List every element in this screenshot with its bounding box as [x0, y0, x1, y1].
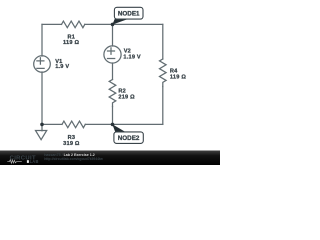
wire bottom-left segment	[42, 123, 62, 125]
wire left vertical upper	[41, 24, 43, 56]
wire left vertical lower	[41, 72, 43, 124]
wire right vertical lower	[162, 87, 164, 125]
node junction dot left	[40, 123, 44, 127]
wire bottom-right segment	[85, 123, 163, 125]
resistor R3 labels	[63, 135, 80, 147]
resistor R3	[62, 121, 85, 128]
resistor R4 labels	[170, 69, 186, 81]
svg-text:http://circuitlab.com/cgoud7k5: http://circuitlab.com/cgoud7k5944tw	[44, 157, 103, 161]
node NODE1 flag pointer	[112, 17, 127, 25]
svg-text:NODE2: NODE2	[118, 135, 140, 142]
node NODE2 flag box	[114, 132, 143, 144]
CircuitLab logo	[7, 156, 38, 165]
svg-text:1.9 V: 1.9 V	[55, 64, 69, 70]
svg-text:LAB: LAB	[30, 159, 39, 164]
voltage source V2 labels	[123, 48, 141, 60]
wire middle vertical lower	[112, 107, 114, 125]
wire middle vertical upper	[112, 24, 114, 46]
svg-text:119 Ω: 119 Ω	[63, 40, 79, 46]
svg-text:NODE1: NODE1	[118, 11, 140, 18]
node junction dot NODE2	[111, 123, 115, 127]
voltage source V1 labels	[55, 59, 69, 70]
svg-text:319 Ω: 319 Ω	[63, 141, 80, 147]
svg-text:219 Ω: 219 Ω	[118, 94, 135, 100]
node junction dot NODE1	[111, 23, 115, 27]
svg-text:1.19 V: 1.19 V	[123, 54, 141, 60]
watermark text	[44, 153, 103, 161]
voltage source V2	[104, 46, 121, 63]
svg-text:119 Ω: 119 Ω	[170, 74, 186, 80]
resistor R1 labels	[63, 34, 79, 46]
wire top-left segment	[42, 23, 62, 25]
resistor R4	[160, 59, 167, 87]
node NODE2 flag pointer	[112, 124, 126, 132]
wire right vertical upper	[162, 24, 164, 59]
resistor R1	[62, 21, 85, 28]
ground	[41, 124, 43, 130]
resistor R2 labels	[118, 89, 135, 101]
wire middle between V2 and R2	[112, 63, 114, 80]
resistor R2	[109, 80, 116, 107]
node NODE1 flag box	[114, 7, 143, 19]
wire top-right segment	[85, 23, 163, 25]
voltage source V1	[34, 56, 51, 73]
